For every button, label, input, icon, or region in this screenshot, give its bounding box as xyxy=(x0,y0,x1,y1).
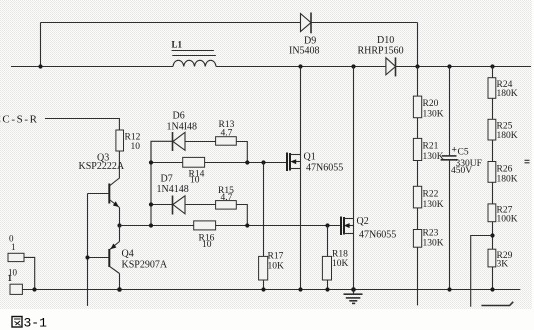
resistor R20 xyxy=(413,96,443,119)
wire box1 to rail xyxy=(24,257,35,289)
wire base bus vertical xyxy=(87,194,89,306)
svg-text:3K: 3K xyxy=(497,260,509,270)
svg-text:R22: R22 xyxy=(423,190,439,200)
svg-text:IN5408: IN5408 xyxy=(289,46,320,57)
wire R15 down to y225 bus xyxy=(236,205,247,226)
svg-text:D7: D7 xyxy=(161,174,173,185)
svg-text:Q1: Q1 xyxy=(304,152,316,163)
svg-text:10: 10 xyxy=(202,240,212,250)
svg-text:R25: R25 xyxy=(497,122,513,132)
node junction Q4 base xyxy=(85,255,89,259)
resistor R16 xyxy=(194,221,216,250)
svg-text:L1: L1 xyxy=(172,40,183,50)
wire main rail segment 3 xyxy=(396,66,532,68)
node junction Q1 source rail xyxy=(298,287,302,291)
svg-text:R26: R26 xyxy=(497,165,513,175)
svg-text:3-1: 3-1 xyxy=(24,316,48,330)
wire Q4 emitter up xyxy=(119,226,121,242)
wire Q3 emitter down xyxy=(119,208,121,226)
svg-text:C5: C5 xyxy=(458,148,469,158)
wire R18 bottom xyxy=(327,280,329,290)
diode D9 xyxy=(289,13,320,57)
mosfet Q2 xyxy=(341,216,396,241)
svg-text:10K: 10K xyxy=(268,262,285,272)
resistor R17 xyxy=(259,252,284,281)
wire top rail right segment xyxy=(311,22,418,24)
node junction Q4 collector rail xyxy=(117,287,122,292)
wire main rail segment 2 xyxy=(216,66,386,68)
resistor R18 xyxy=(322,250,348,281)
wire R17 top vertical xyxy=(263,163,265,257)
resistor R15 xyxy=(216,186,237,209)
svg-text:1N4148: 1N4148 xyxy=(157,184,189,195)
wire R24 chain vertical xyxy=(492,67,494,290)
inductor L1 xyxy=(172,40,217,67)
wire bottom-right frame mark xyxy=(481,302,513,306)
node junction D7 branch left xyxy=(149,202,153,206)
node junction C5 top xyxy=(447,64,451,68)
wire D6 to R13 xyxy=(185,141,216,143)
svg-text:100K: 100K xyxy=(497,215,518,225)
wire CC-S-R to R12 xyxy=(45,119,119,131)
wire D6 branch left corner xyxy=(151,141,172,162)
svg-text:KSP2907A: KSP2907A xyxy=(122,260,168,271)
node junction R29 rail xyxy=(490,287,494,291)
svg-text:R17: R17 xyxy=(268,252,284,262)
wire Q1 gate line y162 xyxy=(151,162,287,164)
svg-text:Q4: Q4 xyxy=(122,249,134,260)
svg-text:4.7: 4.7 xyxy=(221,129,233,139)
svg-text:1N4I48: 1N4I48 xyxy=(167,122,198,133)
resistor R21 xyxy=(413,138,443,162)
resistor box2 left edge xyxy=(8,268,23,295)
node junction R20 chain top xyxy=(415,64,419,68)
node junction R13 branch right xyxy=(245,160,249,164)
svg-text:180K: 180K xyxy=(497,175,518,185)
node junction R27-R29 tap xyxy=(490,233,494,237)
mosfet Q1 xyxy=(287,152,343,174)
transistor Q3 xyxy=(79,153,125,208)
wire top rail left segment xyxy=(41,22,301,24)
svg-text:130K: 130K xyxy=(423,239,444,249)
wire parallel branch vertical x151 xyxy=(150,142,152,226)
svg-text:10: 10 xyxy=(190,176,200,186)
svg-text:130K: 130K xyxy=(423,110,444,120)
svg-text:R12: R12 xyxy=(125,133,141,143)
diode D10 xyxy=(358,35,404,77)
wire tap from R27-R29 junction xyxy=(471,236,492,307)
resistor R12 xyxy=(116,130,141,152)
wire D7 to R15 xyxy=(185,204,216,206)
node junction C5 rail xyxy=(447,287,451,291)
svg-text:R21: R21 xyxy=(423,142,439,152)
svg-text:R18: R18 xyxy=(332,250,348,260)
node junction top-left xyxy=(38,64,42,68)
svg-text:+: + xyxy=(452,146,457,156)
svg-text:4.7: 4.7 xyxy=(221,193,233,203)
svg-text:10K: 10K xyxy=(332,259,349,269)
node junction R15 branch bottom xyxy=(245,223,249,227)
resistor R23 xyxy=(413,229,443,249)
resistor R13 xyxy=(216,120,237,145)
wire R18 top vertical xyxy=(327,226,329,257)
svg-text:D6: D6 xyxy=(173,111,185,122)
node junction Q1 drain xyxy=(298,64,302,68)
wire Q4 collector down xyxy=(119,274,121,290)
wire gate drive bus y225 xyxy=(120,225,342,227)
svg-text:180K: 180K xyxy=(497,131,518,141)
wire R20 chain vertical xyxy=(417,67,419,306)
caption figure 3-1 xyxy=(12,316,47,330)
node junction D6 branch left xyxy=(149,160,153,164)
node junction Q3 emitter xyxy=(117,223,121,227)
ground xyxy=(344,290,363,304)
node junction R17 tap xyxy=(261,160,265,164)
svg-text:1: 1 xyxy=(11,242,16,252)
svg-text:R23: R23 xyxy=(423,229,439,239)
wire main rail segment 1 xyxy=(11,66,173,68)
resistor R24 xyxy=(488,78,518,99)
capacitor C5 xyxy=(441,146,482,176)
resistor box1 left edge xyxy=(8,234,24,262)
svg-text:47N6055: 47N6055 xyxy=(359,230,396,241)
node junction box1 rail xyxy=(32,287,36,291)
resistor R14 xyxy=(183,157,205,185)
svg-text:Q2: Q2 xyxy=(357,216,369,227)
transistor Q4 xyxy=(88,242,168,274)
svg-text:10: 10 xyxy=(131,142,141,152)
resistor R27 xyxy=(488,204,518,225)
wire bottom rail xyxy=(22,289,520,291)
node junction R24 chain top xyxy=(490,64,494,68)
wire top rail right drop to main rail xyxy=(417,23,419,67)
wire Q2 drain vertical xyxy=(353,67,355,219)
wire R17 bottom xyxy=(263,280,265,290)
node junction x151 bottom xyxy=(149,223,153,227)
wire Q1 drain vertical xyxy=(300,67,302,155)
node junction Q2 drain xyxy=(351,64,355,68)
diode D7 xyxy=(157,174,189,215)
svg-text:47N6055: 47N6055 xyxy=(306,163,343,174)
resistor R22 xyxy=(413,186,443,210)
resistor R29 xyxy=(488,249,513,269)
wire R12 to Q3 collector xyxy=(109,151,119,186)
net stub right edge xyxy=(525,160,530,163)
node junction R18 rail xyxy=(325,287,329,291)
wire Q2 source vertical xyxy=(353,234,355,290)
svg-text:RHRP1560: RHRP1560 xyxy=(358,46,404,57)
wire D7 branch xyxy=(151,204,173,206)
svg-text:450V: 450V xyxy=(451,166,472,176)
node junction R17 rail xyxy=(261,287,265,291)
svg-text:130K: 130K xyxy=(423,152,444,162)
svg-text:KSP2222A: KSP2222A xyxy=(79,161,125,172)
svg-text:130K: 130K xyxy=(423,200,444,210)
svg-text:R20: R20 xyxy=(423,99,439,109)
node junction R18 top xyxy=(325,223,329,227)
svg-text:180K: 180K xyxy=(497,89,518,99)
wire C5 top vertical xyxy=(449,67,451,156)
wire C5 bottom vertical xyxy=(449,160,451,290)
svg-text:1: 1 xyxy=(8,273,13,283)
svg-text:D10: D10 xyxy=(377,35,394,46)
node junction Q2 source rail xyxy=(351,287,356,292)
wire top rail left drop to main rail xyxy=(40,23,42,67)
resistor R25 xyxy=(488,119,518,141)
wire R13 down to gate line xyxy=(236,142,247,163)
diode D6 xyxy=(167,111,198,152)
wire Q1 source vertical xyxy=(300,169,302,290)
resistor R26 xyxy=(488,162,518,185)
svg-text:CC-S-R: CC-S-R xyxy=(0,114,39,126)
